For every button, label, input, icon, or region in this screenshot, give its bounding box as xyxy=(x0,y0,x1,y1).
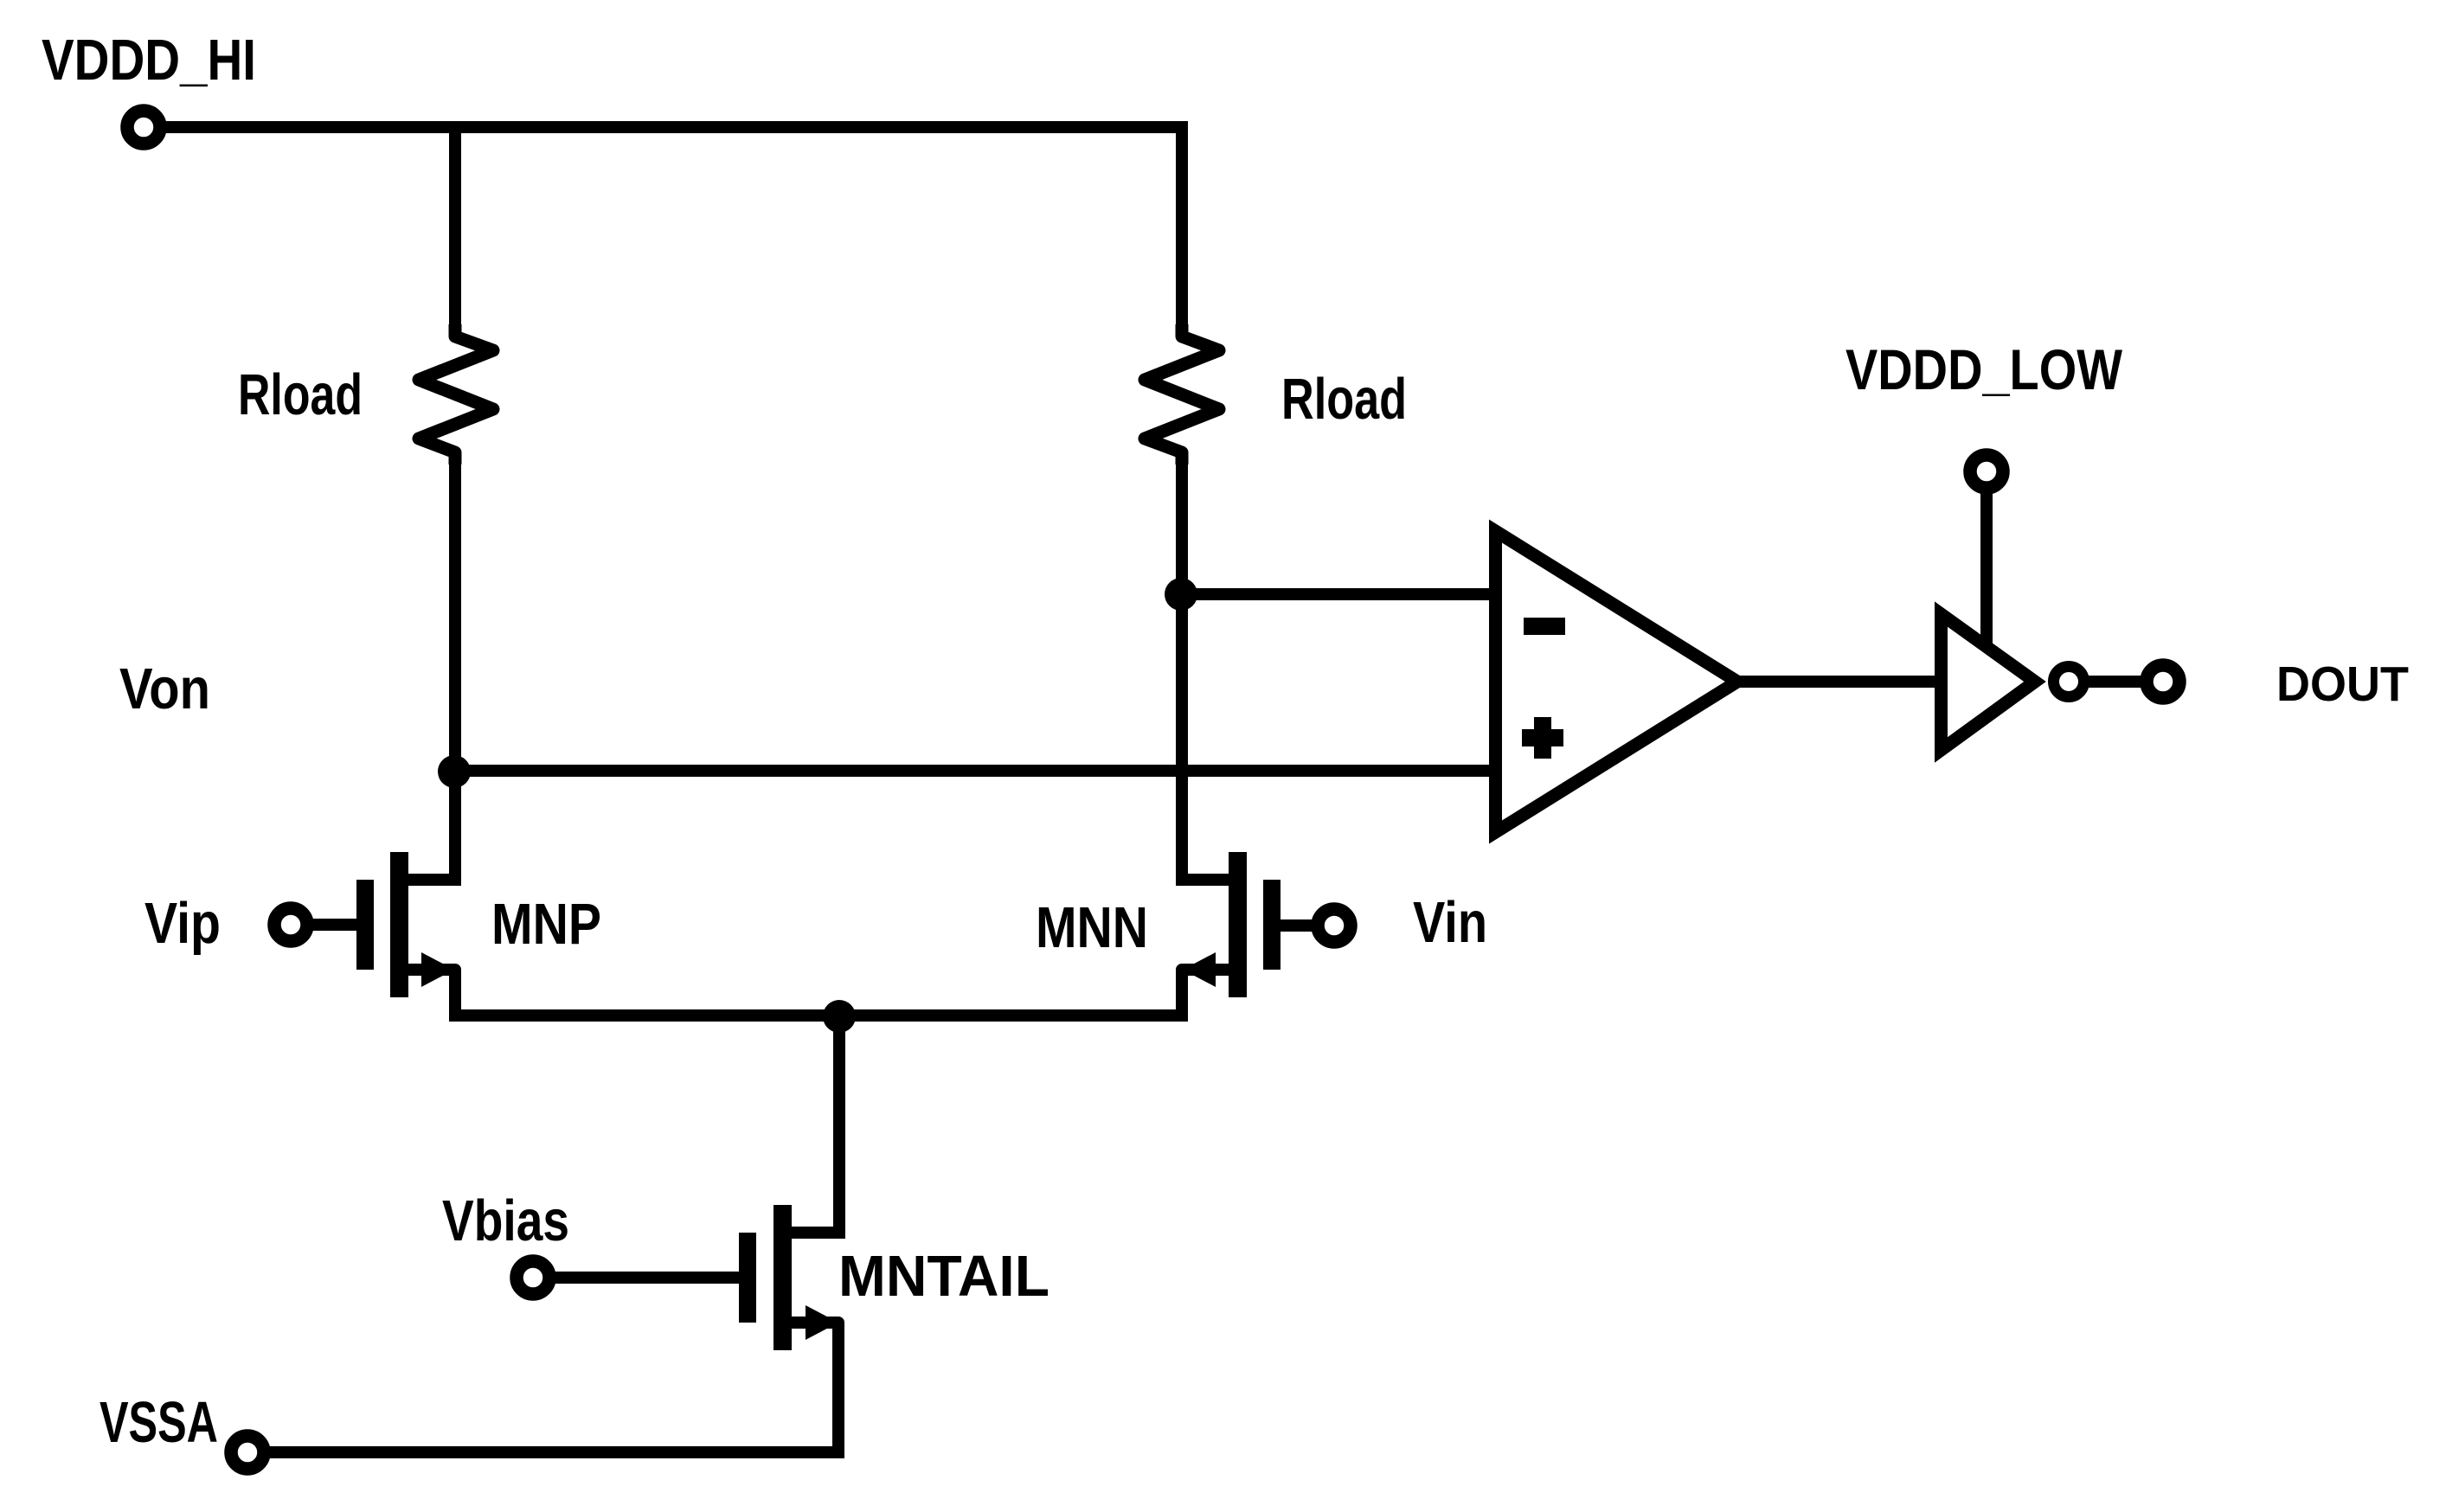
op-amp comparator U1 triangle xyxy=(1496,531,1738,832)
wire top rail VDDD_HI xyxy=(164,121,1188,133)
node Von2 junction dot (comparator minus node) xyxy=(1165,578,1197,611)
resistor Rload (right) xyxy=(1145,324,1219,464)
svg-text:Vin: Vin xyxy=(1413,890,1487,955)
transistor MNN source arrow xyxy=(1183,952,1216,987)
wire Von node to comparator plus input xyxy=(454,765,1496,777)
wire VSSA rail xyxy=(268,1446,844,1458)
svg-text:Rload: Rload xyxy=(1281,367,1407,432)
transistor MNP source arrow xyxy=(421,952,454,987)
terminal DOUT xyxy=(2147,665,2179,698)
transistor MNP drain jog xyxy=(399,874,461,886)
svg-text:DOUT: DOUT xyxy=(2276,657,2409,712)
svg-text:VDDD_LOW: VDDD_LOW xyxy=(1845,337,2123,401)
buffer U2 triangle xyxy=(1942,614,2036,750)
svg-text:VSSA: VSSA xyxy=(99,1390,218,1455)
node Von junction dot xyxy=(438,755,471,788)
terminal VSSA xyxy=(231,1436,264,1469)
wire tail node down to MNTAIL drain xyxy=(833,1016,845,1233)
wire tail rail (common sources) xyxy=(449,1009,1188,1022)
transistor MNTAIL source jog xyxy=(782,1323,838,1452)
transistor MNN channel bar xyxy=(1229,852,1247,997)
terminal Vin xyxy=(1318,909,1351,942)
svg-text:Vip: Vip xyxy=(144,891,221,956)
transistor MNN gate bar xyxy=(1263,880,1281,970)
terminal VDDD_HI xyxy=(127,111,160,144)
wire left column: Rload bottom through node Von to MNP drain xyxy=(449,452,461,880)
transistor MNP source jog xyxy=(399,970,455,1015)
svg-text:VDDD_HI: VDDD_HI xyxy=(42,28,256,93)
terminal Vip xyxy=(274,908,307,941)
wire VDDD_LOW supply lead to buffer xyxy=(1980,493,1993,649)
svg-text:MNP: MNP xyxy=(491,892,601,957)
op-amp minus sign xyxy=(1524,618,1565,635)
wire Vip gate lead xyxy=(313,919,357,931)
wire right column: Rload bottom through minus node to MNN drain xyxy=(1176,452,1188,880)
wire Vbias gate lead xyxy=(555,1272,740,1284)
wire minus node to comparator minus input xyxy=(1181,588,1496,600)
svg-text:Vbias: Vbias xyxy=(442,1188,569,1253)
buffer inversion bubble xyxy=(2054,667,2084,697)
wire bubble to DOUT terminal xyxy=(2084,676,2141,688)
op-amp plus sign xyxy=(1522,717,1563,759)
transistor MNP gate bar xyxy=(356,880,374,970)
svg-text:Von: Von xyxy=(119,657,210,721)
transistor MNP channel bar xyxy=(390,852,408,997)
wire left branch from rail to Rload xyxy=(449,127,461,337)
wire right branch from rail to Rload xyxy=(1176,127,1188,337)
transistor MNTAIL channel bar xyxy=(773,1205,792,1350)
transistor MNTAIL drain jog xyxy=(782,1227,845,1239)
wire Vin gate lead xyxy=(1281,919,1312,932)
svg-text:MNN: MNN xyxy=(1036,895,1148,960)
transistor MNN source jog xyxy=(1182,970,1238,1015)
svg-text:Rload: Rload xyxy=(238,362,363,427)
node tail junction dot xyxy=(823,1000,856,1033)
wire comparator output xyxy=(1737,676,1942,688)
terminal VDDD_LOW xyxy=(1970,455,2003,488)
transistor MNN drain jog xyxy=(1176,874,1238,886)
terminal Vbias xyxy=(517,1261,549,1294)
resistor Rload (left) xyxy=(419,324,493,464)
transistor MNTAIL source arrow xyxy=(806,1305,838,1340)
svg-text:MNTAIL: MNTAIL xyxy=(838,1244,1049,1309)
transistor MNTAIL gate bar xyxy=(739,1233,756,1323)
